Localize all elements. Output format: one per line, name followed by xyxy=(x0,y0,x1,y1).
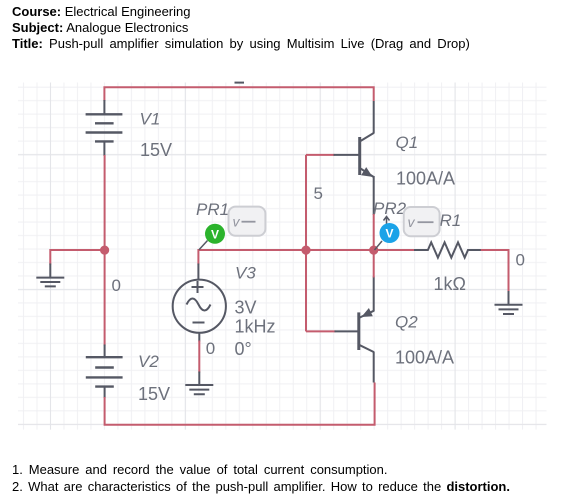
probe PR1 pointer xyxy=(199,241,208,250)
svg-text:V: V xyxy=(211,227,219,241)
svg-text:1kHz: 1kHz xyxy=(235,317,276,337)
ground left pin stub xyxy=(49,264,51,278)
wire net 5 vertical xyxy=(305,155,307,332)
svg-text:0°: 0° xyxy=(235,339,252,359)
svg-text:v: v xyxy=(233,214,241,230)
svg-text:V3: V3 xyxy=(235,264,256,283)
wire junction C to R1 xyxy=(374,249,415,251)
wire net 5 to Q1 base xyxy=(306,154,335,156)
wire ground-left branch xyxy=(50,250,104,265)
svg-text:V1: V1 xyxy=(140,109,161,128)
Q1 base pin stub xyxy=(334,154,360,156)
svg-text:R1: R1 xyxy=(440,211,462,230)
svg-text:100A/A: 100A/A xyxy=(395,347,454,367)
svg-text:v: v xyxy=(408,214,416,230)
svg-text:15V: 15V xyxy=(140,140,172,160)
wire Q2 emitter to junction C xyxy=(373,250,375,277)
ground right pin stub xyxy=(508,291,510,305)
wire V3 to ground xyxy=(198,341,200,373)
ground right xyxy=(495,305,523,314)
V3 bottom pin stub xyxy=(198,333,200,342)
battery V2 xyxy=(86,357,123,386)
junction C xyxy=(369,246,378,255)
transistor Q2 xyxy=(359,277,374,383)
ground mid xyxy=(185,385,213,394)
svg-text:0: 0 xyxy=(206,339,215,358)
probe PR2 xyxy=(380,223,400,243)
V3 top pin stub xyxy=(197,264,199,281)
wire R1 to right ground xyxy=(481,250,509,292)
svg-text:100A/A: 100A/A xyxy=(396,169,455,189)
wire net 5 to Q2 base xyxy=(306,330,336,332)
wire Q1 emitter to junction C xyxy=(373,214,375,250)
transistor Q1 xyxy=(360,101,374,215)
svg-text:15V: 15V xyxy=(138,384,170,404)
wire V2 pin stubs xyxy=(104,345,106,399)
wire V1 pin stubs xyxy=(103,100,105,156)
resistor R1 xyxy=(414,242,482,257)
battery V1 xyxy=(86,114,123,141)
probe PR1 value box xyxy=(229,207,266,236)
ground mid pin stub xyxy=(198,372,200,386)
stray mark (cropped UI element) xyxy=(235,82,245,84)
svg-text:Q2: Q2 xyxy=(395,312,418,331)
wire left rail junction to V2 xyxy=(104,250,106,345)
svg-text:5: 5 xyxy=(314,184,323,203)
ground left xyxy=(36,278,64,287)
svg-text:PR2: PR2 xyxy=(373,199,407,218)
probe PR1 xyxy=(205,224,225,244)
svg-text:Q1: Q1 xyxy=(396,133,419,152)
junction B xyxy=(301,246,310,255)
svg-text:0: 0 xyxy=(112,276,121,295)
wire bottom rail xyxy=(105,383,375,425)
svg-text:0: 0 xyxy=(516,250,525,269)
wire left rail V1 to junction xyxy=(104,155,106,250)
junction A xyxy=(100,246,109,255)
wire net V1+ top rail xyxy=(104,87,373,101)
svg-text:PR1: PR1 xyxy=(196,200,229,219)
probe PR2 value box xyxy=(404,207,440,236)
Q2 base pin stub xyxy=(335,330,359,332)
svg-text:3V: 3V xyxy=(235,298,257,318)
wire mid rail B to C xyxy=(306,249,374,251)
AC source V3 xyxy=(173,280,226,333)
wire V3 top branch xyxy=(198,250,306,265)
svg-text:V2: V2 xyxy=(138,352,159,371)
probe PR2 arrow xyxy=(384,217,390,228)
svg-text:V: V xyxy=(385,227,393,241)
svg-text:1kΩ: 1kΩ xyxy=(434,274,466,294)
probe PR2 pointer xyxy=(375,241,383,250)
